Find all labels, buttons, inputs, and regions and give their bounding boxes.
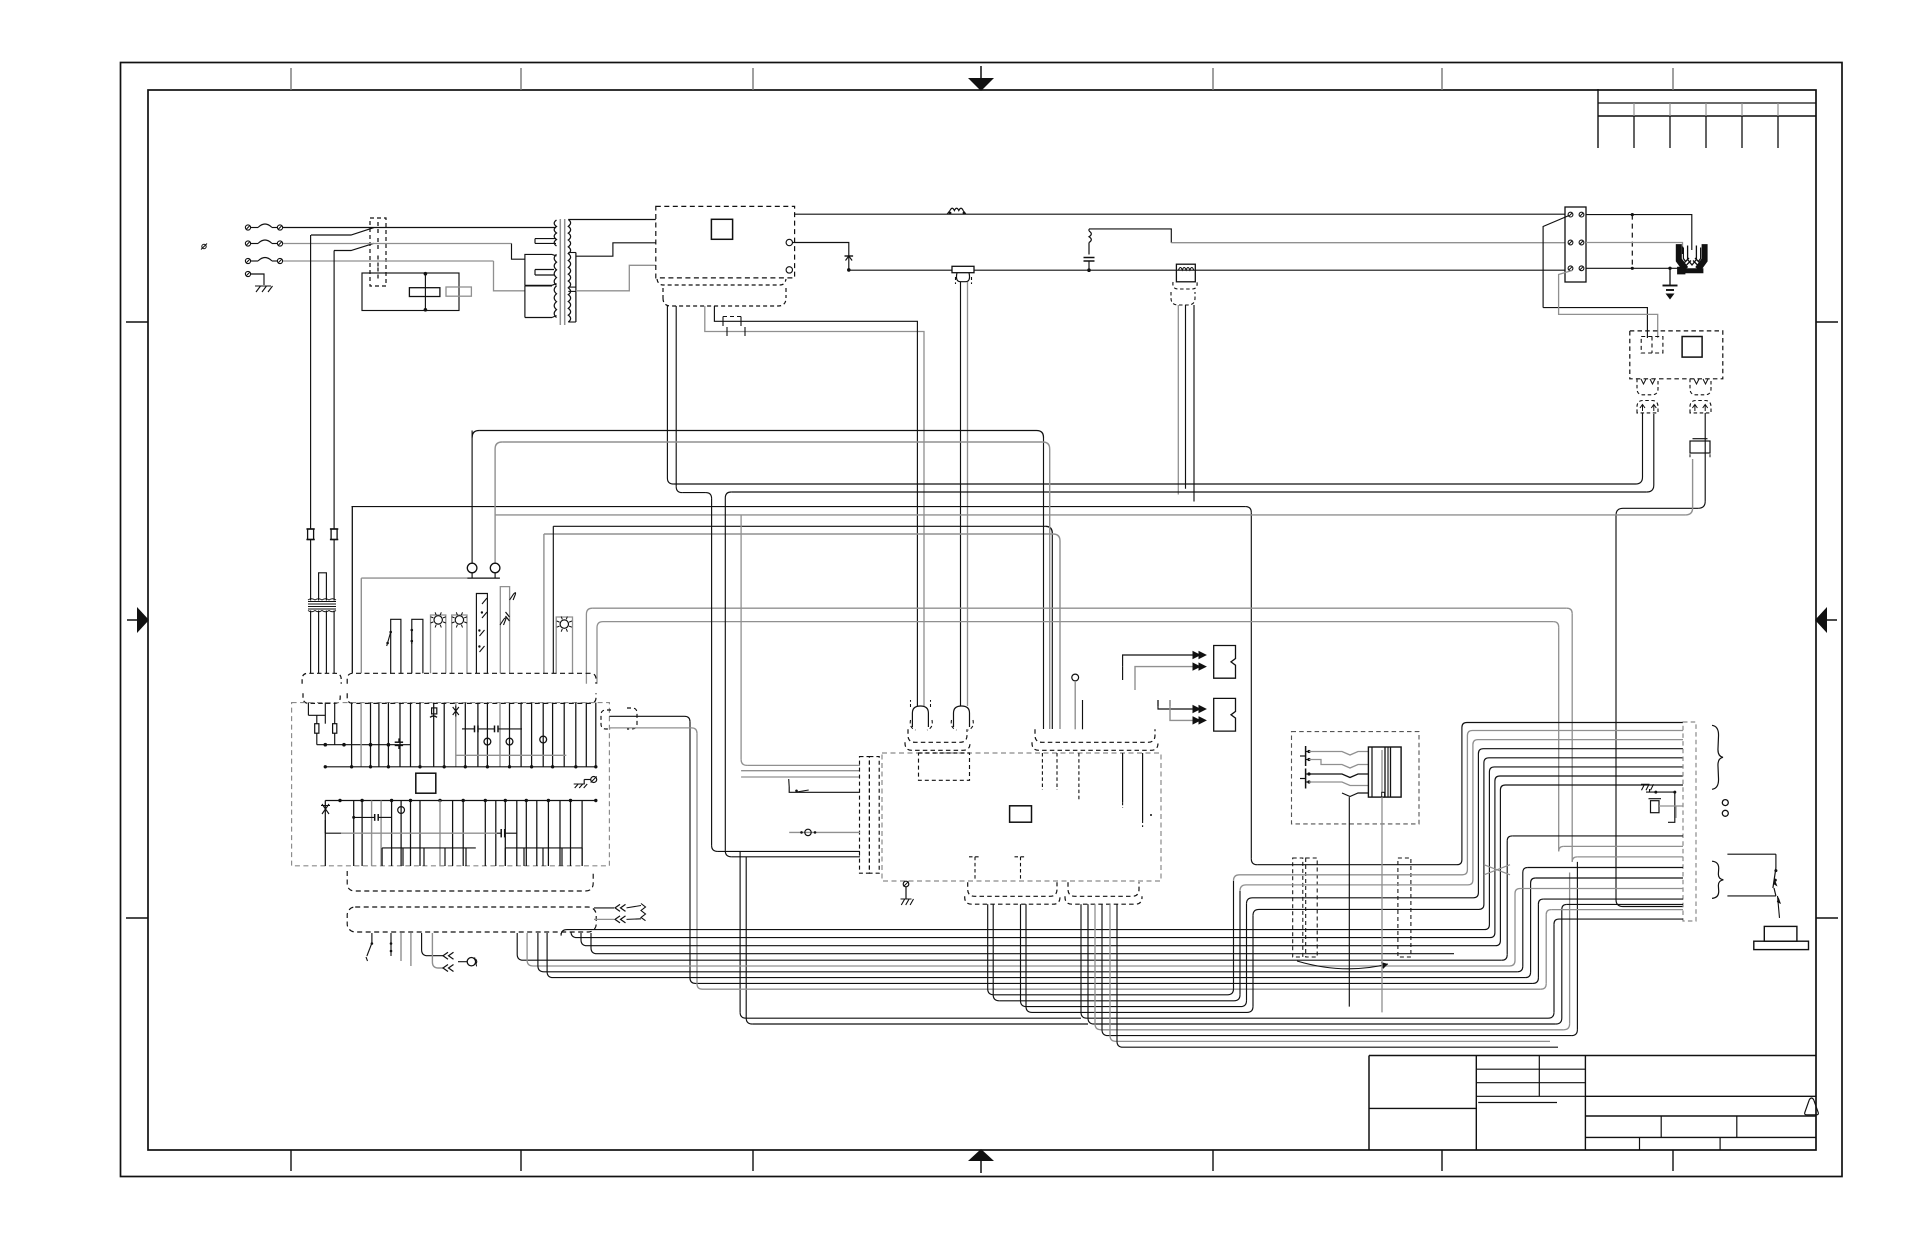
title block underline	[1478, 1102, 1557, 1104]
motor wire pair 1	[987, 904, 989, 989]
frame tick top	[1672, 68, 1674, 90]
main board inner dashed plug box	[919, 753, 970, 780]
DC link wire plus	[714, 306, 917, 706]
snubber diode D1	[793, 243, 849, 270]
heater sensor pair	[594, 907, 614, 909]
board stub wire	[1082, 700, 1084, 729]
wire run L4 gray	[495, 514, 1686, 516]
fan feed wire 1	[1586, 215, 1692, 250]
solenoid wire 3	[1309, 774, 1368, 778]
choke output 3	[1193, 305, 1195, 502]
board circle c	[540, 736, 547, 743]
hanging wire 3	[400, 933, 402, 961]
primary tap 1	[535, 238, 556, 240]
board circle a	[484, 738, 491, 745]
board fuse a	[315, 724, 319, 734]
main board pin wire 5	[1142, 753, 1144, 820]
panel bottom tray 2	[347, 907, 596, 932]
panel strip small 1	[302, 673, 341, 684]
wire run L1	[673, 483, 1635, 485]
panel bottom tray 1	[347, 871, 593, 891]
thermostat wire a	[422, 933, 443, 956]
board gray h4	[341, 832, 497, 834]
input terminal L2	[245, 241, 250, 246]
title block right rows	[1585, 1095, 1816, 1097]
strip barrel connector	[1651, 801, 1660, 813]
strip lower feed	[1559, 846, 1564, 851]
bundle wire gray B	[597, 622, 603, 684]
strip lower feed	[1572, 857, 1577, 862]
input terminal L1	[245, 225, 250, 230]
revision table divider	[1633, 103, 1635, 116]
primary feed wire 2	[512, 244, 525, 260]
thermistor feed 1a	[1123, 655, 1199, 667]
secondary winding	[568, 220, 570, 323]
title block right row2 dividers	[1660, 1116, 1662, 1137]
title block divider 1	[1475, 1056, 1477, 1151]
board net h1	[308, 714, 325, 716]
bundle wire gray A	[586, 608, 592, 684]
strip lower feed	[1515, 889, 1520, 894]
panel rail corner	[351, 506, 354, 508]
logo triangle	[1805, 1098, 1819, 1115]
AC bus wire bottom	[849, 269, 1565, 271]
filter centre wire	[424, 273, 426, 311]
rectifier dashed box	[656, 206, 795, 278]
board net h3	[354, 816, 375, 818]
solenoid contact 1	[1305, 746, 1307, 766]
board bus 1	[325, 766, 596, 768]
motor wire pair 2b	[1025, 904, 1027, 1006]
filter resistor R2	[446, 287, 471, 296]
channel drop 1	[739, 851, 741, 1012]
aux bus wire	[1089, 229, 1171, 243]
switch contact	[377, 238, 379, 242]
thermistor RT2	[1214, 698, 1236, 731]
board vertical wires top	[351, 703, 353, 767]
main switch dashed box	[370, 218, 386, 286]
solenoid contact 2	[1305, 769, 1307, 789]
board edge connector	[601, 710, 611, 729]
strip lower feed	[1538, 899, 1543, 904]
head push button SW	[1778, 896, 1780, 918]
RC snubber branch	[1088, 243, 1090, 255]
border frame inner	[148, 90, 1816, 1150]
wire staircase up	[1454, 785, 1683, 946]
revision table divider	[1705, 103, 1707, 116]
nested run 1	[561, 930, 1245, 936]
main board pin wire 4	[1122, 753, 1124, 802]
sensor circle top	[1072, 674, 1079, 681]
motor wire pair 1b	[992, 904, 994, 995]
aux psu dashed box	[1630, 331, 1723, 379]
indicator circle 1	[467, 563, 477, 573]
psu conn tray right	[1690, 379, 1711, 395]
main board pin stub 1	[1041, 753, 1043, 790]
primary winding 1	[554, 220, 556, 246]
strip lower feed	[1546, 910, 1551, 915]
board cap c4	[497, 832, 501, 834]
board vertical wires bottom	[324, 801, 326, 867]
encoder wire	[1087, 904, 1089, 1018]
encoder wire stub	[1109, 904, 1111, 1035]
main board bottom stub 2	[1020, 857, 1022, 881]
board input riser 2	[724, 498, 726, 851]
riser to lamp gray	[494, 449, 496, 563]
encoder wire stub	[1116, 904, 1118, 1041]
main board ground	[903, 881, 909, 887]
main board pin stub 3	[1078, 753, 1080, 800]
panel connector arrows	[476, 594, 487, 674]
solenoid wire 1	[1309, 752, 1368, 756]
panel fuse F4	[308, 529, 314, 540]
earth hatch	[1641, 784, 1654, 790]
primary feed wire 3	[494, 261, 525, 291]
psu plug left	[1637, 401, 1658, 413]
sensor input circle	[789, 831, 860, 833]
input terminal R1	[277, 225, 282, 230]
panel lamp 3	[556, 617, 572, 673]
frame tick top	[1441, 68, 1443, 90]
panel riser gray	[543, 534, 545, 673]
input terminal L3	[245, 258, 250, 263]
frame centre arrow bottom	[980, 1159, 982, 1173]
fuse F1	[251, 227, 258, 229]
long run B	[527, 933, 1509, 966]
board net h2	[316, 733, 318, 745]
title block right row3 dividers	[1639, 1137, 1641, 1150]
aux bus wire gray	[1171, 242, 1565, 244]
psu plug right	[1690, 401, 1711, 413]
pass conn column 1	[1293, 858, 1303, 957]
fuse F3	[251, 260, 258, 262]
bus wire to ground	[1586, 267, 1680, 269]
thermistor feed 2a	[1158, 700, 1199, 709]
panel strip main 1	[347, 673, 596, 684]
panel riser black	[552, 526, 554, 673]
wire staircase up	[1454, 749, 1683, 898]
panel rail gray	[360, 578, 362, 673]
rectifier output circle 1	[786, 239, 792, 245]
pass conn column 3	[1398, 858, 1411, 957]
pass wire lower	[1245, 929, 1454, 931]
board circle d	[398, 807, 405, 814]
panel transformer T2 primary	[310, 540, 312, 601]
wire run L8 gray	[495, 442, 502, 449]
nested run 2	[571, 932, 1245, 938]
wire run L5	[553, 525, 1045, 527]
thermal fuse	[947, 211, 950, 215]
psu label square	[1682, 337, 1702, 358]
psu right pair barrel	[1690, 441, 1710, 453]
thermistor feed 1b	[1135, 667, 1199, 678]
nested run 3	[581, 933, 1245, 946]
rectifier aux wire 2	[675, 306, 677, 487]
thermistor RT1	[1214, 646, 1236, 679]
wire bend L2 up	[1653, 414, 1655, 485]
board input riser 3	[740, 515, 742, 760]
machine connector strip	[1683, 722, 1696, 921]
strip lower feed	[1554, 919, 1559, 924]
frame centre arrow left	[127, 619, 139, 621]
pass wire lower	[1245, 937, 1454, 939]
solenoid dashed box	[1292, 732, 1420, 824]
channel drop 2	[745, 857, 747, 1018]
terminal screws	[1568, 240, 1573, 245]
psu input connector	[1641, 337, 1663, 354]
line choke box	[1176, 264, 1195, 282]
title block middle rows	[1476, 1068, 1585, 1070]
board gray link	[456, 754, 567, 756]
inline connector marks	[722, 317, 724, 327]
panel switch S2	[412, 619, 423, 673]
title block outline	[1369, 1055, 1816, 1057]
panel lamp 2	[452, 615, 467, 673]
revision table divider	[1741, 103, 1743, 116]
frame tick top	[520, 68, 522, 90]
board cap c3	[453, 706, 459, 717]
fan ground	[1669, 268, 1671, 285]
frame tick left	[126, 917, 148, 919]
wire stub L3b	[1623, 507, 1698, 509]
switch blade 1	[311, 228, 374, 235]
frame tick right	[1816, 321, 1838, 323]
frame tick bottom	[1441, 1150, 1443, 1171]
terminal link dashed	[1631, 215, 1633, 269]
choke output 2	[1185, 305, 1187, 489]
strip lower feed	[1562, 904, 1567, 909]
thermostat wire b	[432, 933, 443, 968]
solenoid out black	[1348, 797, 1350, 1007]
AC bus wire top	[795, 213, 1565, 215]
thermostat TH1	[443, 952, 448, 959]
primary tap 2	[535, 269, 554, 271]
transformer core	[559, 219, 561, 325]
strip lower feed	[1531, 878, 1536, 883]
main board outline	[882, 753, 1161, 881]
main board bottom tray left	[968, 882, 1057, 896]
psu conn tray left	[1637, 379, 1658, 395]
revision table divider	[1777, 103, 1779, 116]
revision table divider	[1669, 103, 1671, 116]
switch contact	[377, 256, 379, 260]
terminal screws	[1568, 266, 1573, 271]
wire staircase up	[1454, 758, 1683, 910]
board comb right	[505, 847, 582, 849]
wire staircase up	[1454, 723, 1683, 865]
strip brace bottom	[1712, 861, 1723, 898]
rectifier label square	[711, 219, 732, 239]
encoder wire	[1080, 904, 1082, 1012]
strip circles	[1722, 800, 1728, 806]
long run C	[538, 933, 1517, 972]
edge connector wire 2	[609, 727, 691, 729]
solenoid out gray	[1381, 797, 1383, 1012]
revision table	[1597, 89, 1599, 148]
switch contact	[377, 222, 379, 226]
choke tray 2	[1171, 292, 1195, 305]
frame tick top	[752, 68, 754, 90]
primary winding 2	[525, 254, 552, 285]
frame tick bottom	[1672, 1150, 1674, 1171]
rectifier connector tray 2	[663, 288, 786, 306]
title block left cell line	[1369, 1107, 1476, 1109]
earth terminal	[245, 271, 250, 276]
rectifier output circle 2	[786, 267, 792, 273]
frame tick right	[1816, 917, 1838, 919]
phase wire L1	[283, 227, 556, 229]
rectifier connector tray 1	[657, 279, 786, 285]
feed 1a riser	[1122, 667, 1124, 680]
board circle b	[506, 738, 513, 745]
switch contact	[377, 268, 379, 272]
hanging switch 1	[371, 933, 373, 943]
wire staircase up	[1454, 767, 1683, 930]
frame tick top	[290, 68, 292, 90]
main board bottom tray right	[1068, 882, 1139, 896]
plug B	[954, 706, 970, 727]
title block divider 2	[1584, 1056, 1586, 1151]
panel sensor wire	[500, 587, 509, 674]
board input fan line 3	[741, 776, 860, 778]
edge connector wire 1	[609, 715, 684, 717]
gray crossover X	[1484, 865, 1510, 875]
board comb left	[382, 847, 476, 849]
chassis ground symbol	[255, 286, 273, 292]
wire staircase up	[1454, 731, 1683, 875]
hanging switch 2	[390, 933, 392, 943]
frame centre arrow right	[1825, 619, 1837, 621]
board input fan line 2	[741, 770, 860, 772]
frame tick bottom	[290, 1150, 292, 1171]
indicator circle 2	[490, 563, 500, 573]
wire run L7	[471, 431, 473, 438]
wire run L2	[725, 492, 731, 498]
input terminal R2	[277, 241, 282, 246]
frame centre arrow top	[980, 66, 982, 80]
panel strip small 2	[303, 693, 340, 703]
solenoid wire 2	[1309, 760, 1368, 769]
switch blade 2	[334, 243, 374, 250]
plug A	[912, 706, 928, 727]
primary winding 3	[525, 286, 552, 318]
wire staircase up	[1454, 740, 1683, 885]
strip lower feed	[1507, 836, 1512, 841]
panel fuse F5	[331, 529, 337, 540]
choke tray 1	[1173, 282, 1197, 289]
nested run 4	[591, 933, 1245, 954]
phase symbol	[202, 244, 206, 248]
main board cpu square	[1010, 806, 1032, 822]
terminal block	[1565, 207, 1586, 282]
encoder wire	[1101, 904, 1103, 1029]
wire run L3	[352, 506, 1246, 508]
frame tick top	[1212, 68, 1214, 90]
frame tick bottom	[1212, 1150, 1214, 1171]
phase wire L3	[283, 260, 494, 262]
pass wire lower	[1245, 945, 1454, 947]
hanging wire 4	[410, 933, 412, 966]
control board outline	[292, 703, 610, 866]
earth wire	[251, 274, 264, 285]
panel transformer T2 secondary	[310, 611, 312, 674]
riser to lamp black	[471, 438, 473, 564]
pass wire lower	[1245, 953, 1454, 955]
motor wire pair 2	[1020, 904, 1022, 1000]
strip lower feed	[1523, 868, 1528, 873]
frame tick bottom	[520, 1150, 522, 1171]
panel fuse wire 1	[310, 235, 312, 529]
cooling fan M1	[1676, 245, 1687, 271]
input terminal R3	[277, 258, 282, 263]
board cap c1	[398, 738, 400, 742]
DC pair to mainboard	[960, 282, 962, 706]
pass conn column 2	[1306, 858, 1318, 957]
earth link wire	[1646, 791, 1675, 793]
panel fuse wire 2	[333, 251, 335, 530]
filter resistor R1	[409, 288, 440, 297]
choke output gray	[1177, 305, 1179, 495]
main board top tray right	[1035, 729, 1155, 742]
panel transformer T2 core	[308, 602, 336, 610]
swap arc arrow	[1297, 961, 1388, 969]
main board left connector col 1	[860, 757, 870, 874]
strip inner wire hook	[1675, 806, 1677, 818]
panel switch S1	[391, 619, 401, 673]
solenoid block	[1368, 747, 1401, 797]
main board top tray left	[908, 729, 967, 742]
board fuse b	[333, 724, 337, 734]
terminal screws	[1568, 212, 1573, 217]
thermistor feed 2b	[1170, 700, 1199, 720]
DC link wire minus	[705, 306, 924, 706]
pedal switch input	[789, 787, 860, 792]
wire staircase up	[1454, 776, 1683, 938]
board cpu square	[416, 773, 436, 793]
panel lamp 1	[431, 615, 446, 673]
wire bend L3 down	[1616, 508, 1623, 515]
board cap c2	[432, 708, 437, 714]
solenoid wire 4	[1309, 782, 1368, 786]
board ground	[591, 777, 597, 783]
inline connector on bus	[952, 266, 974, 272]
frame tick bottom	[752, 1150, 754, 1171]
secondary tap C wire	[576, 265, 656, 291]
rectifier aux wire 1	[666, 306, 668, 478]
encoder wire	[1094, 904, 1096, 1024]
panel strip main 2	[347, 693, 596, 703]
board bus 2	[325, 800, 596, 802]
phase wire L2	[283, 243, 512, 245]
secondary frame	[575, 253, 577, 323]
long run D	[547, 933, 1525, 978]
strip brace top	[1712, 725, 1723, 789]
board input riser 1	[711, 499, 713, 846]
main board bottom stub 1	[974, 857, 976, 881]
main board left connector col 2	[869, 757, 879, 874]
psu feed wire 2	[1559, 271, 1658, 339]
board thermal switch	[321, 804, 330, 814]
fuse F2	[251, 243, 258, 245]
wire run L6 gray	[544, 533, 1053, 535]
secondary tap A wire	[568, 219, 656, 221]
secondary tap B wire	[576, 243, 656, 256]
line filter box	[362, 273, 459, 311]
fan feed wire 2	[1586, 243, 1683, 247]
head switch S10	[1727, 853, 1776, 855]
main board pin stub 2	[1056, 753, 1058, 790]
psu feed wire 1	[1543, 216, 1569, 308]
